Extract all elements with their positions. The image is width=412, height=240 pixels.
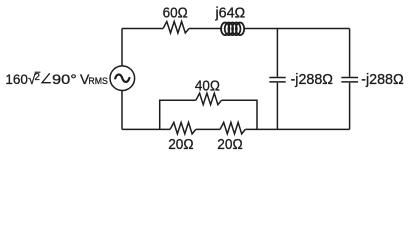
wire top-left: source top to 60ohm — [122, 28, 163, 30]
svg-text:2: 2 — [35, 72, 40, 83]
svg-text:160: 160 — [5, 71, 28, 87]
wire parallel-branch right riser — [222, 100, 257, 129]
wire right branch lower (C2 bottom to bottom-right corner) — [349, 83, 351, 130]
source VS1 AC voltage source circle — [110, 66, 135, 91]
wire right branch upper (to C2 top plate) — [349, 29, 351, 77]
wire C1 branch upper — [276, 29, 278, 77]
wire bottom: right corner to R4 — [245, 128, 349, 130]
wire between R1 and L1 — [189, 28, 222, 30]
wire left branch lower (source bottom lead) — [121, 91, 123, 130]
source VS1 sine symbol — [115, 74, 129, 81]
resistor R1 60ohm — [163, 22, 189, 34]
wire C1 branch lower — [276, 83, 278, 130]
resistor R2 40ohm — [196, 93, 222, 105]
svg-text:j64Ω: j64Ω — [215, 5, 246, 22]
svg-text:RMS: RMS — [88, 76, 108, 86]
wire parallel-branch left riser — [160, 100, 196, 129]
svg-text:20Ω: 20Ω — [168, 136, 193, 153]
wire left branch upper (source top lead) — [121, 29, 123, 66]
wire L1 to top-right corner — [244, 28, 350, 30]
capacitor C2 -j288ohm — [341, 78, 358, 82]
circuit schematic: series-parallel AC network — [0, 0, 412, 154]
svg-text:-j288Ω: -j288Ω — [291, 71, 334, 88]
wire between 20ohm resistors — [196, 128, 220, 130]
inductor L1 j64ohm — [221, 23, 244, 36]
svg-text:20Ω: 20Ω — [217, 136, 242, 153]
svg-text:-j288Ω: -j288Ω — [361, 71, 404, 88]
label source value 160sqrt2 angle 90deg Vrms — [5, 71, 108, 87]
wire bottom: R3 to bottom-left — [122, 128, 170, 130]
svg-text:90°: 90° — [52, 71, 77, 87]
resistor R3 20ohm (left) — [170, 122, 196, 133]
svg-text:40Ω: 40Ω — [195, 77, 220, 94]
resistor R4 20ohm (right) — [220, 122, 245, 133]
capacitor C1 -j288ohm — [269, 78, 285, 82]
svg-text:60Ω: 60Ω — [163, 5, 188, 22]
